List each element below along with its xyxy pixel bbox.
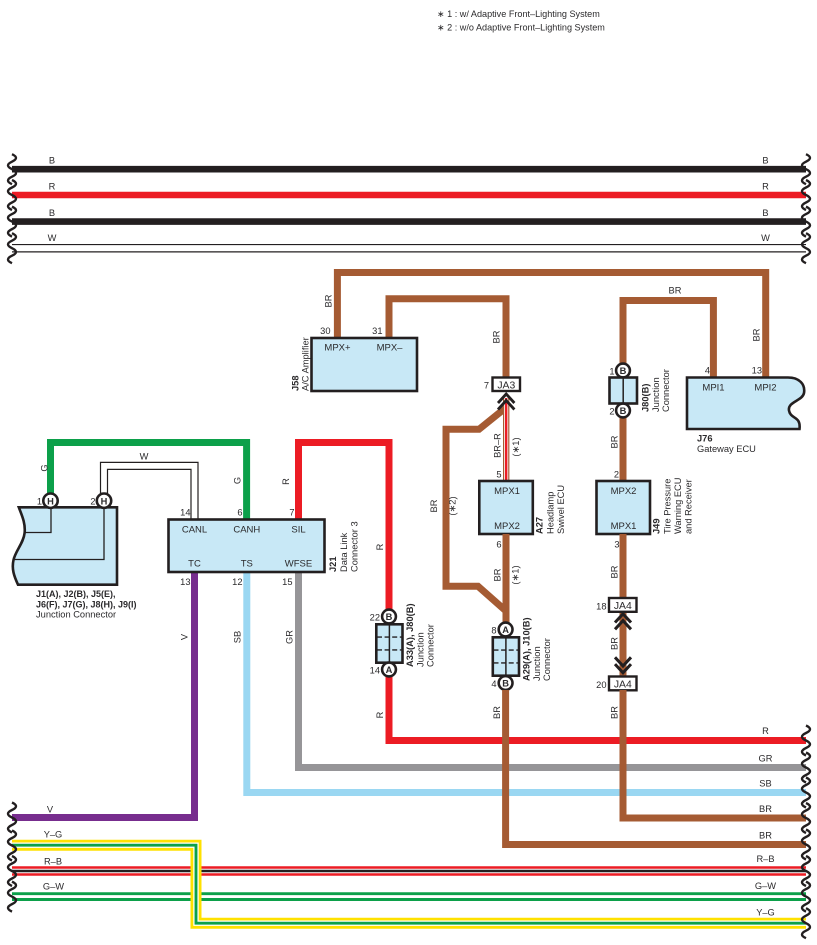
- svg-text:12: 12: [232, 577, 242, 587]
- svg-text:Junction: Junction: [416, 632, 426, 667]
- svg-text:4: 4: [491, 679, 496, 689]
- svg-text:1: 1: [609, 367, 614, 377]
- svg-text:6: 6: [496, 540, 501, 550]
- svg-text:Headlamp: Headlamp: [546, 492, 556, 534]
- svg-text:H: H: [101, 496, 108, 506]
- svg-text:A/C Amplifier: A/C Amplifier: [301, 337, 311, 391]
- wire R J21 SIL to R bus: [281, 443, 810, 756]
- svg-text:MPX2: MPX2: [611, 486, 637, 497]
- svg-text:MPX1: MPX1: [494, 486, 520, 497]
- svg-text:A33(A), J80(B): A33(A), J80(B): [405, 603, 415, 667]
- svg-text:BR: BR: [492, 706, 502, 719]
- shield chevrons above JA4-20: [615, 657, 631, 673]
- svg-text:TC: TC: [188, 559, 201, 570]
- svg-text:Tire Pressure: Tire Pressure: [663, 479, 673, 534]
- wire BR JA4 shield link (between JA4-18 and JA4-20): [610, 611, 624, 678]
- svg-text:V: V: [180, 633, 190, 640]
- svg-text:2: 2: [609, 407, 614, 417]
- svg-text:B: B: [386, 612, 393, 622]
- svg-text:V: V: [47, 805, 54, 815]
- svg-text:Y–G: Y–G: [44, 830, 63, 840]
- wire V J21 TC to left edge: [8, 572, 195, 833]
- svg-text:B: B: [502, 679, 509, 689]
- svg-text:BR: BR: [324, 294, 334, 307]
- svg-text:5: 5: [496, 470, 501, 480]
- wire BR (*2) JA3 shield to A29 pin8: [446, 408, 506, 625]
- svg-text:CANL: CANL: [182, 525, 207, 536]
- svg-text:13: 13: [180, 577, 190, 587]
- svg-text:BR: BR: [610, 435, 620, 448]
- svg-text:J1(A), J2(B), J5(E),: J1(A), J2(B), J5(E),: [36, 589, 116, 599]
- svg-text:H: H: [47, 496, 54, 506]
- svg-text:A27: A27: [535, 517, 545, 534]
- label BR (*2): [429, 496, 458, 515]
- junction connector J80(B): [609, 364, 671, 418]
- svg-text:2: 2: [614, 470, 619, 480]
- svg-text:R: R: [762, 726, 769, 736]
- wire G junction connector pin1 to J21 CANH: [40, 443, 247, 521]
- svg-text:GR: GR: [759, 754, 773, 764]
- svg-text:22: 22: [370, 613, 380, 623]
- svg-text:13: 13: [752, 366, 762, 376]
- svg-text:J21: J21: [328, 556, 338, 572]
- wire BR A29 pin4 to BR bus (right): [492, 690, 810, 860]
- svg-text:18: 18: [596, 602, 606, 612]
- svg-text:J6(F), J7(G), J8(H), J9(I): J6(F), J7(G), J8(H), J9(I): [36, 600, 137, 610]
- svg-text:(∗1): (∗1): [511, 437, 521, 456]
- svg-text:JA4: JA4: [614, 680, 632, 691]
- svg-text:Junction Connector: Junction Connector: [36, 610, 116, 620]
- junction connector A29(A), J10(B): [491, 617, 552, 689]
- svg-text:JA3: JA3: [497, 380, 515, 391]
- svg-text:∗ 1 : w/ Adaptive Front–Lighti: ∗ 1 : w/ Adaptive Front–Lighting System: [437, 9, 600, 19]
- svg-text:W: W: [761, 233, 770, 243]
- svg-text:SB: SB: [233, 631, 243, 643]
- wire GR J21 WFSE to right edge: [285, 572, 811, 783]
- svg-text:BR: BR: [493, 568, 503, 581]
- svg-text:BR: BR: [669, 286, 682, 296]
- svg-text:R–B: R–B: [44, 857, 62, 867]
- svg-text:WFSE: WFSE: [285, 559, 312, 570]
- svg-text:BR: BR: [429, 499, 439, 512]
- svg-text:Y–G: Y–G: [756, 908, 775, 918]
- svg-text:A29(A), J10(B): A29(A), J10(B): [522, 617, 532, 681]
- svg-text:Junction: Junction: [532, 646, 542, 681]
- svg-text:and Receiver: and Receiver: [684, 479, 694, 534]
- svg-text:1: 1: [37, 497, 42, 507]
- svg-text:MPI1: MPI1: [702, 383, 724, 394]
- shield connector JA4 (pin 18): [596, 598, 636, 612]
- svg-text:BR: BR: [610, 706, 620, 719]
- svg-text:BR: BR: [610, 637, 620, 650]
- svg-text:R: R: [281, 478, 291, 485]
- shield connector JA4 (pin 20): [596, 677, 636, 691]
- svg-text:R: R: [375, 711, 385, 718]
- wire W junction connector pin2 to J21 CANL: [104, 452, 195, 522]
- svg-text:(∗1): (∗1): [511, 565, 521, 584]
- svg-text:J58: J58: [291, 375, 301, 391]
- svg-text:JA4: JA4: [614, 601, 632, 612]
- svg-text:Connector: Connector: [542, 638, 552, 681]
- svg-text:MPX2: MPX2: [494, 521, 520, 532]
- svg-text:J80(B): J80(B): [641, 384, 651, 412]
- wire BR J80(B) pin1 to J76 MPI1: [623, 301, 713, 379]
- wire BR J58 pin30 to J76 MPI2: [337, 273, 765, 379]
- svg-text:Gateway ECU: Gateway ECU: [697, 444, 756, 454]
- svg-text:14: 14: [370, 666, 380, 676]
- svg-text:7: 7: [484, 381, 489, 391]
- svg-text:SIL: SIL: [291, 525, 305, 536]
- wire BR A27 MPX2 to A29 pin8: [493, 534, 521, 624]
- bus wire W (top): [8, 233, 810, 263]
- svg-text:6: 6: [237, 508, 242, 518]
- svg-text:31: 31: [372, 326, 382, 336]
- svg-text:8: 8: [491, 626, 496, 636]
- svg-text:B: B: [762, 208, 768, 218]
- svg-text:Warning ECU: Warning ECU: [673, 478, 683, 535]
- wire Y-G (bottom, with jog): [8, 830, 810, 939]
- svg-text:B: B: [620, 366, 627, 376]
- svg-text:J76: J76: [697, 434, 713, 444]
- svg-text:B: B: [762, 156, 768, 166]
- svg-text:G: G: [40, 464, 50, 471]
- svg-text:W: W: [140, 452, 149, 462]
- svg-text:G: G: [233, 477, 243, 484]
- svg-text:TS: TS: [241, 559, 253, 570]
- svg-text:R: R: [762, 182, 769, 192]
- shield chevrons below JA4-18: [615, 614, 631, 630]
- svg-text:∗ 2 : w/o Adaptive Front–Light: ∗ 2 : w/o Adaptive Front–Lighting System: [437, 23, 605, 33]
- shield chevrons below JA3: [498, 394, 514, 410]
- svg-text:GR: GR: [285, 630, 295, 644]
- note adaptive front-lighting system: [437, 9, 605, 33]
- svg-text:20: 20: [596, 680, 606, 690]
- component J58 A/C Amplifier: [291, 326, 418, 391]
- svg-text:A: A: [386, 665, 393, 675]
- svg-text:BR: BR: [492, 330, 502, 343]
- svg-text:SB: SB: [759, 779, 771, 789]
- svg-text:R–B: R–B: [756, 854, 774, 864]
- svg-text:MPX+: MPX+: [324, 343, 351, 354]
- wire BR JA4-20 to BR bus (right): [610, 690, 811, 833]
- svg-text:BR: BR: [759, 804, 772, 814]
- svg-text:MPI2: MPI2: [754, 383, 776, 394]
- svg-text:G–W: G–W: [755, 881, 776, 891]
- svg-text:BR: BR: [610, 565, 620, 578]
- svg-text:Connector 3: Connector 3: [350, 521, 360, 572]
- svg-text:Swivel ECU: Swivel ECU: [556, 485, 566, 534]
- component J76 Gateway ECU: [687, 366, 804, 455]
- svg-text:2: 2: [90, 497, 95, 507]
- svg-text:G–W: G–W: [43, 882, 64, 892]
- svg-text:Junction: Junction: [651, 377, 661, 412]
- svg-text:CANH: CANH: [233, 525, 260, 536]
- svg-text:Connector: Connector: [426, 624, 436, 667]
- bus wire R (top): [8, 180, 810, 210]
- svg-text:MPX1: MPX1: [611, 521, 637, 532]
- svg-text:BR: BR: [752, 328, 762, 341]
- wire BR J80(B) pin2 to J49 MPX2: [610, 417, 624, 482]
- bus wire R-B (bottom): [8, 854, 810, 886]
- svg-text:R: R: [49, 182, 56, 192]
- svg-text:A: A: [502, 625, 509, 635]
- component A27 Headlamp Swivel ECU: [479, 481, 566, 534]
- svg-text:Connector: Connector: [661, 369, 671, 412]
- svg-text:BR: BR: [759, 831, 772, 841]
- wire BR J58 pin31 to JA3 pin7: [389, 299, 506, 379]
- bus wire B (top, second): [8, 207, 810, 237]
- svg-text:B: B: [49, 156, 55, 166]
- svg-text:BR–R: BR–R: [493, 433, 503, 458]
- svg-text:Data Link: Data Link: [339, 532, 349, 572]
- label BR-R (*1): [493, 433, 522, 458]
- wire BR J49 MPX1 to JA4 pin18: [610, 534, 624, 599]
- svg-text:14: 14: [180, 508, 190, 518]
- svg-text:4: 4: [705, 366, 710, 376]
- svg-text:R: R: [375, 543, 385, 550]
- svg-text:W: W: [48, 233, 57, 243]
- wire SB J21 TS to right edge: [233, 572, 811, 808]
- svg-text:J49: J49: [652, 518, 662, 534]
- svg-text:15: 15: [282, 577, 292, 587]
- svg-text:MPX–: MPX–: [377, 343, 404, 354]
- component J21 Data Link Connector 3: [169, 508, 360, 588]
- svg-text:B: B: [620, 406, 627, 416]
- svg-text:30: 30: [320, 326, 330, 336]
- svg-text:3: 3: [614, 540, 619, 550]
- junction connector A33(A), J80(B): [370, 603, 436, 676]
- bus wire G-W (bottom): [8, 881, 810, 912]
- svg-text:B: B: [49, 208, 55, 218]
- component J1(A)-J9(I) junction connector: [13, 494, 137, 620]
- component J49 Tire Pressure Warning ECU and Receiver: [597, 478, 694, 535]
- svg-text:(∗2): (∗2): [448, 496, 458, 515]
- svg-text:7: 7: [289, 508, 294, 518]
- bus wire B (top, first): [8, 154, 810, 184]
- wire BR-R (*1) JA3 shield to A27 MPX1: [503, 398, 509, 482]
- shield connector JA3 (pin 7): [484, 378, 520, 392]
